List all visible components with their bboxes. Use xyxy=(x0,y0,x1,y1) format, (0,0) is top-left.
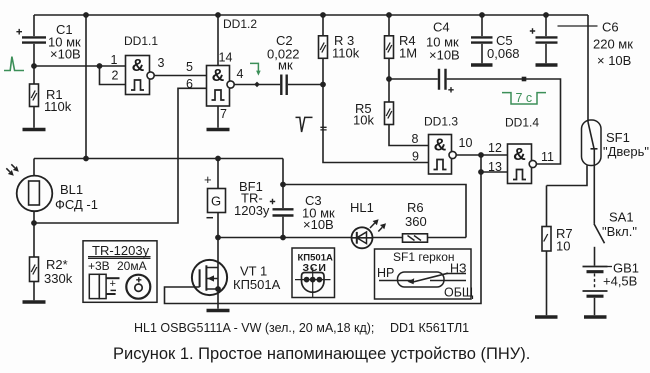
wire DD1.2 pin14 to rail xyxy=(216,13,220,66)
ground under R1 xyxy=(23,128,46,132)
black negative pulse symbol xyxy=(296,117,313,132)
svg-text:×10В: ×10В xyxy=(50,47,81,62)
junction square on feedback wire xyxy=(522,77,527,82)
svg-text:10: 10 xyxy=(459,136,473,150)
logic gate DD1.4 xyxy=(488,116,554,184)
wire rail to photo sensor net xyxy=(84,13,88,159)
node A: C1/R1 junction xyxy=(32,64,36,68)
ground under R7 xyxy=(535,315,558,319)
battery GB1 xyxy=(583,261,640,316)
ground under C5 xyxy=(471,63,493,67)
svg-text:110k: 110k xyxy=(332,46,360,61)
svg-text:"Дверь": "Дверь" xyxy=(603,144,649,159)
MOSFET VT1 xyxy=(192,260,281,309)
capacitor C1 xyxy=(16,15,81,66)
capacitor C3 xyxy=(270,159,335,238)
wire node A to DD1.1 pin1 xyxy=(34,65,126,67)
wire DD1.1 out to DD1.2 pin5 xyxy=(154,75,206,77)
svg-text:×10В: ×10В xyxy=(429,48,460,63)
junction tick on pin4 wire xyxy=(254,82,260,88)
op-amp U1: logic gate DD1.1 xyxy=(111,34,165,95)
wire DD1.2 pin4 to C2 xyxy=(234,84,280,86)
svg-text:BL1: BL1 xyxy=(60,182,83,197)
svg-text:9: 9 xyxy=(412,150,419,164)
green 7s pulse annotation xyxy=(502,91,546,105)
resistor R3 xyxy=(319,13,429,163)
svg-text:HL1 OSBG5111A - VW (зел., 20 м: HL1 OSBG5111A - VW (зел., 20 мА,18 кд); xyxy=(134,321,374,335)
svg-text:G: G xyxy=(211,194,221,209)
svg-text:+: + xyxy=(110,278,116,290)
resistor R6 xyxy=(403,200,428,242)
svg-text:220 мк: 220 мк xyxy=(593,37,633,52)
node C3 top tap xyxy=(281,182,285,186)
photoresistor BL1 xyxy=(6,159,98,224)
svg-text:SF1: SF1 xyxy=(606,130,630,145)
wire rail to SF1 xyxy=(587,15,589,122)
svg-text:12: 12 xyxy=(488,141,502,155)
svg-text:мк: мк xyxy=(278,58,293,73)
svg-text:&: & xyxy=(434,135,447,155)
svg-text:1M: 1M xyxy=(399,46,417,61)
svg-text:330k: 330k xyxy=(44,271,73,286)
svg-text:× 10В: × 10В xyxy=(597,53,631,68)
LED HL1 xyxy=(350,200,386,248)
resistor R5 xyxy=(353,101,429,146)
node BL1/R2 junction xyxy=(32,221,36,225)
svg-text:13: 13 xyxy=(488,160,502,174)
capacitor C5 xyxy=(471,13,520,63)
svg-text:C4: C4 xyxy=(433,20,450,35)
ground under R2 xyxy=(23,300,46,304)
svg-text:DD1.3: DD1.3 xyxy=(424,115,458,129)
svg-text:1: 1 xyxy=(111,53,118,67)
svg-text:×10В: ×10В xyxy=(303,217,334,232)
wire DD1.2 pin6 to BL1 bottom node xyxy=(34,88,207,223)
svg-text:DD1.2: DD1.2 xyxy=(223,17,257,31)
wire DD1.2 pin7 to ground xyxy=(217,106,219,128)
break tick on R3 wire xyxy=(320,127,326,130)
svg-text:&: & xyxy=(513,144,526,164)
svg-text:+3В: +3В xyxy=(88,259,110,273)
logic gate DD1.2 xyxy=(186,17,257,121)
note parts list text xyxy=(134,321,469,335)
svg-text:1203у: 1203у xyxy=(234,203,270,218)
svg-text:110k: 110k xyxy=(44,99,72,114)
svg-text:8: 8 xyxy=(412,132,419,146)
svg-text:"Вкл.": "Вкл." xyxy=(602,224,637,239)
capacitor C2 xyxy=(267,33,300,95)
svg-text:HL1: HL1 xyxy=(350,200,374,215)
svg-text:КП501А: КП501А xyxy=(233,277,281,292)
svg-text:11: 11 xyxy=(541,150,554,164)
capacitor C6 xyxy=(530,13,633,68)
svg-text:R2*: R2* xyxy=(46,257,68,272)
svg-text:360: 360 xyxy=(405,214,427,229)
svg-text:7 с: 7 с xyxy=(516,91,533,105)
svg-text:НР: НР xyxy=(377,266,394,280)
svg-text:14: 14 xyxy=(219,51,233,65)
wire HL1/R6 upper branch xyxy=(283,185,466,238)
svg-text:DD1.4: DD1.4 xyxy=(505,116,539,130)
info box KP501A pinout xyxy=(292,248,335,298)
capacitor C4 xyxy=(426,20,460,93)
svg-text:DD1.1: DD1.1 xyxy=(124,34,158,48)
ground under C6 xyxy=(536,63,558,67)
svg-text:SF1 геркон: SF1 геркон xyxy=(393,250,455,264)
svg-text:20мА: 20мА xyxy=(117,259,147,273)
resistor R4 xyxy=(385,13,418,102)
node R4/C4 junction xyxy=(387,77,391,81)
svg-text:4: 4 xyxy=(237,67,244,81)
svg-text:C6: C6 xyxy=(602,20,619,35)
svg-text:10k: 10k xyxy=(353,113,374,128)
svg-text:DD1 К561ТЛ1: DD1 К561ТЛ1 xyxy=(390,321,469,335)
svg-text:7: 7 xyxy=(220,107,227,121)
svg-text:НЗ: НЗ xyxy=(450,262,467,276)
resistor R2 xyxy=(30,223,73,300)
switch SA1 xyxy=(594,210,637,266)
svg-text:SA1: SA1 xyxy=(609,210,634,225)
wire BF1 bottom to HL1/R6 xyxy=(216,235,466,239)
resistor R7 xyxy=(542,186,573,316)
wire C2 to R3 node xyxy=(288,82,325,86)
svg-text:&: & xyxy=(212,65,225,85)
info box TR-1203u xyxy=(83,241,157,302)
svg-text:+4,5В: +4,5В xyxy=(603,274,637,289)
green falling edge arrow xyxy=(250,63,261,75)
svg-text:&: & xyxy=(132,55,145,75)
info box SF1 reed switch xyxy=(375,249,474,300)
svg-text:3: 3 xyxy=(158,56,165,70)
svg-text:2: 2 xyxy=(112,69,119,83)
green input pulse symbol xyxy=(4,57,24,71)
resistor R1 xyxy=(30,66,72,128)
svg-text:Рисунок 1. Простое напоминающе: Рисунок 1. Простое напоминающее устройст… xyxy=(113,345,530,363)
wire DD1.3 out to VT1 gate xyxy=(165,155,484,304)
wire to DD1.4 pin13 xyxy=(481,171,508,173)
svg-text:0,068: 0,068 xyxy=(487,46,520,61)
svg-text:10: 10 xyxy=(556,239,570,254)
wire C4 feedback to DD1.4 output xyxy=(389,79,561,164)
wire photo net horizontal xyxy=(34,156,283,160)
wire pin1-pin2 tie xyxy=(97,64,125,85)
svg-text:5: 5 xyxy=(186,60,193,74)
wire +V top rail xyxy=(34,14,588,16)
node BF1 top tap xyxy=(216,156,220,160)
caption xyxy=(113,345,530,363)
wire DD1.3 out to DD1.4 pin12 xyxy=(456,153,507,157)
logic gate DD1.3 xyxy=(412,115,473,175)
svg-text:ФСД -1: ФСД -1 xyxy=(55,197,98,212)
svg-text:+: + xyxy=(204,172,212,187)
ground under DD1.2 xyxy=(207,128,230,132)
ground under GB1 xyxy=(584,315,607,319)
ground under VT1 xyxy=(207,309,230,313)
svg-text:TR-1203у: TR-1203у xyxy=(92,243,150,258)
reed switch SF1 door xyxy=(547,120,650,224)
svg-text:R6: R6 xyxy=(407,200,424,215)
buzzer BF1 xyxy=(204,159,270,268)
svg-text:ОБЩ: ОБЩ xyxy=(444,286,474,300)
